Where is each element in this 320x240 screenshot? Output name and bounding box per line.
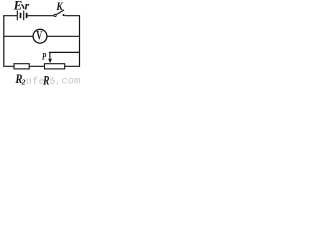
svg-text:nfe: nfe <box>26 76 45 85</box>
svg-text:R: R <box>42 74 49 85</box>
svg-text:E: E <box>13 0 23 12</box>
svg-text:P: P <box>42 50 47 62</box>
svg-text:2: 2 <box>21 78 26 85</box>
svg-text:K: K <box>56 0 64 13</box>
svg-text:V: V <box>36 29 42 43</box>
svg-text:r: r <box>25 1 30 13</box>
svg-text:com: com <box>61 76 80 85</box>
svg-text:.: . <box>54 77 60 85</box>
